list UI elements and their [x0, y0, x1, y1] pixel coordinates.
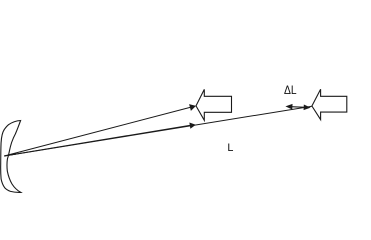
block arrow mirror 1 (near test mass) [196, 89, 232, 120]
concave mirror (crescent / moon shape) [1, 121, 21, 193]
block arrow mirror 2 (far test mass) [312, 89, 347, 119]
Delta-L double headed arrow [291, 106, 305, 109]
svg-text:ΔL: ΔL [284, 83, 297, 97]
ray to near mirror with arrowhead [4, 107, 192, 156]
short beam arrow (overlapping L line) [4, 125, 192, 156]
long beam line L to far mirror [4, 106, 312, 156]
ray convergence wedge at mirror [4, 153, 16, 156]
svg-text:L: L [227, 142, 233, 154]
